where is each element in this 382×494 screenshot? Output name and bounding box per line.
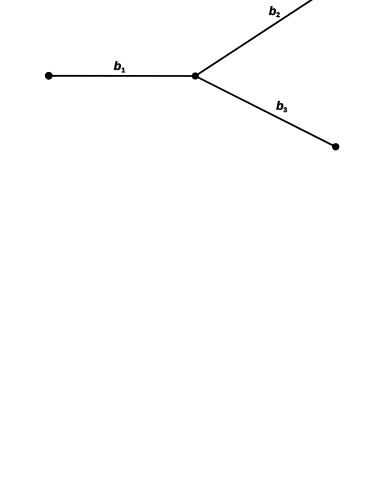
wire b3 segment xyxy=(195,76,335,147)
label b2 xyxy=(269,6,280,17)
label b1 xyxy=(114,61,125,72)
wire b1 segment xyxy=(49,75,196,77)
wire b2 segment xyxy=(195,0,319,76)
node right endpoint xyxy=(332,143,339,150)
label b3 xyxy=(276,101,287,112)
node left endpoint xyxy=(45,72,53,80)
node junction xyxy=(192,72,199,79)
